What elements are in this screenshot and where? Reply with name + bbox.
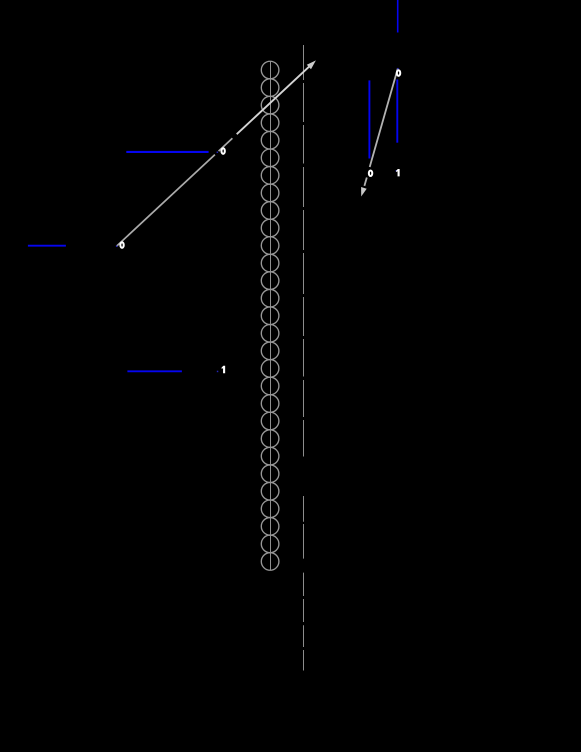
blue vertical line E (368, 80, 370, 158)
arrow 2 head (361, 187, 367, 197)
arrow 2 shaft upper segment (370, 69, 398, 168)
coil (spring of 29 turns) with core line (261, 61, 279, 570)
label 1 (below line F) (396, 169, 400, 176)
marker dot for label 1 on line C (217, 371, 219, 373)
blue level line A (126, 151, 208, 153)
blue level line B (28, 245, 66, 247)
blue level line C (127, 370, 181, 372)
label 0 (arrow 1 tail) (120, 242, 123, 248)
label 0 (below line E) (369, 170, 372, 176)
marker dot for label 1 on line F (396, 170, 397, 171)
marker dot for label 0 on line A (217, 152, 219, 154)
label 1 (line C) (222, 366, 226, 373)
label 0 (line A) (221, 148, 224, 154)
arrow 1 head (307, 60, 316, 69)
marker dot at arrow 2 tail (397, 68, 399, 70)
label 0 (arrow 2 tail) (397, 70, 400, 76)
blue vertical line D (397, 0, 399, 33)
center axis (dash-dot vertical line) (303, 45, 305, 671)
arrow 2 shaft lower segment (364, 178, 366, 186)
marker dot at arrow 1 tail (116, 246, 118, 248)
arrow 1 shaft upper bright segment (237, 67, 310, 135)
arrow 1 shaft lower segment (117, 155, 215, 247)
blue vertical line F (396, 80, 398, 143)
arrow 1 shaft middle segment (219, 138, 233, 151)
